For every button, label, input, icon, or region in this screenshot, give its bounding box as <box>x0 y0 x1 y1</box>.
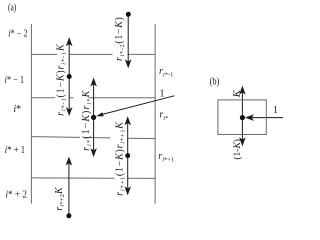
svg-text:i*: i* <box>13 104 21 115</box>
svg-text:i* + 2: i* + 2 <box>6 190 28 201</box>
svg-text:1: 1 <box>160 88 165 99</box>
svg-text:i* − 2: i* − 2 <box>8 28 28 39</box>
svg-text:(b): (b) <box>210 77 220 88</box>
svg-text:i* − 1: i* − 1 <box>5 75 25 86</box>
svg-text:1: 1 <box>273 105 278 116</box>
svg-text:i* + 1: i* + 1 <box>5 145 25 156</box>
svg-text:(a): (a) <box>8 2 16 13</box>
